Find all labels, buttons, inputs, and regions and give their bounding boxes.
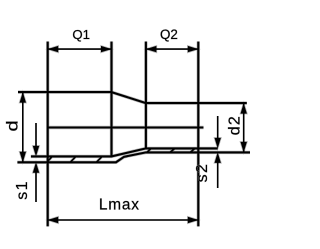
wire top outline of small socket with right tick for dimension d2 xyxy=(146,102,247,104)
hatch 2 (large socket wall) xyxy=(70,156,76,162)
wire mid bore line xyxy=(48,126,204,128)
wire wall section bottom edge with ticks for d, s1, s2, d2 xyxy=(17,152,250,162)
wire left end face of large socket (also Q1 left + Lmax left extension line) xyxy=(47,42,49,227)
hatch 1 (large socket wall) xyxy=(47,156,52,162)
wire joint line between taper and small socket (Q2 left extension) xyxy=(145,42,147,149)
dimension s2 (outside arrows) xyxy=(215,116,221,188)
hatch 3 (large socket wall) xyxy=(96,156,102,162)
decorative soft-edge underlay (gray halo duplicate of the line art, emulates scan blur) xyxy=(17,42,250,227)
hatch 4 (small socket wall) xyxy=(147,148,151,152)
svg-text:s1: s1 xyxy=(14,180,31,200)
dimension Q1 (line and arrowheads) xyxy=(48,46,112,52)
dimension Q2 (line and arrowheads) xyxy=(146,46,198,52)
svg-text:d2: d2 xyxy=(226,115,243,135)
svg-text:d: d xyxy=(3,120,21,131)
label s1 (rotated) xyxy=(14,180,31,200)
dimension d2 (line and arrowheads) xyxy=(241,103,247,152)
svg-text:s2: s2 xyxy=(194,163,211,183)
svg-text:Q1: Q1 xyxy=(72,27,90,42)
dimension Lmax (line and arrowheads) xyxy=(48,217,199,223)
dimension s1 (outside arrows) xyxy=(33,123,39,202)
wire wall section top edge (large socket, taper, small socket) xyxy=(31,148,218,156)
label d (rotated) xyxy=(3,120,21,131)
svg-text:Q2: Q2 xyxy=(160,27,178,42)
label d2 (rotated) xyxy=(226,115,243,135)
wire joint line between large socket and taper (Q1 right extension) xyxy=(110,42,112,157)
wire top outline of large socket with left tick for dimension d xyxy=(18,91,112,93)
hatch 6 (small socket wall) xyxy=(190,148,195,152)
wire taper top outline xyxy=(112,92,146,103)
svg-text:Lmax: Lmax xyxy=(99,197,140,214)
label s2 (rotated) xyxy=(194,163,211,183)
hatch 5 (small socket wall) xyxy=(170,148,175,152)
dimension d (line and arrowheads) xyxy=(20,92,26,162)
wire right end face of small socket (also Q2 right + Lmax right extension line) xyxy=(197,42,199,227)
